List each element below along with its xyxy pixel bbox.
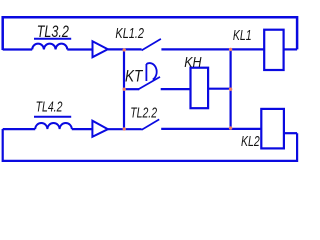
coil KH rectangle xyxy=(191,68,209,109)
wire coil KH to right bus xyxy=(208,88,231,90)
wire to inductor TL3.2 xyxy=(3,48,33,50)
junction node right-top xyxy=(229,48,232,51)
wire coil KL2 to bottom bus xyxy=(284,132,297,134)
junction node left-mid xyxy=(123,88,126,91)
junction node right-mid xyxy=(229,88,232,91)
coil KL1 rectangle xyxy=(264,30,283,70)
wire contact TL2.2 to coil KL2 xyxy=(161,128,261,130)
wire to inductor TL4.2 xyxy=(3,128,36,130)
inductor L2 TL4.2 xyxy=(35,123,72,129)
contact TL2.2 blade xyxy=(142,119,160,129)
wire contact KL1.2 to coil KL1 xyxy=(161,48,264,50)
top bus wire xyxy=(3,17,297,50)
contact KT delay chord xyxy=(145,64,147,81)
bottom bus wire xyxy=(3,129,297,161)
wire amplifier to contact KL1.2 xyxy=(108,48,142,50)
contact KT blade xyxy=(138,77,160,90)
svg-text:KH: KH xyxy=(184,54,201,70)
junction node left-top xyxy=(123,48,126,51)
junction node left-bottom xyxy=(123,127,126,130)
vertical bus right node xyxy=(230,49,232,128)
wire to contact KT xyxy=(124,88,139,90)
svg-text:KL1: KL1 xyxy=(233,26,252,43)
junction node right-bottom xyxy=(229,126,232,129)
svg-text:TL4.2: TL4.2 xyxy=(36,97,63,114)
svg-text:KT: KT xyxy=(125,67,144,86)
coil KL2 rectangle xyxy=(261,109,284,148)
wire coil KL1 to top bus xyxy=(284,48,298,50)
svg-text:KL2: KL2 xyxy=(241,132,260,149)
svg-text:TL3.2: TL3.2 xyxy=(37,22,70,41)
amplifier triangle A2 xyxy=(92,121,108,137)
label TL3.2 underline xyxy=(34,38,71,40)
wire amplifier to contact TL2.2 xyxy=(108,128,142,130)
svg-text:KL1.2: KL1.2 xyxy=(115,24,144,41)
wire inductor to amplifier 2 xyxy=(72,128,93,130)
vertical bus left node xyxy=(123,50,125,129)
amplifier triangle A1 xyxy=(93,41,108,57)
contact KL1.2 blade xyxy=(142,39,161,51)
label TL4.2 underline xyxy=(34,116,71,118)
wire contact KT to coil KH xyxy=(161,88,191,90)
svg-text:TL2.2: TL2.2 xyxy=(130,104,157,121)
wire inductor to amplifier xyxy=(67,48,92,50)
contact KT delay semicircle xyxy=(146,63,156,80)
inductor L1 TL3.2 xyxy=(32,44,67,50)
